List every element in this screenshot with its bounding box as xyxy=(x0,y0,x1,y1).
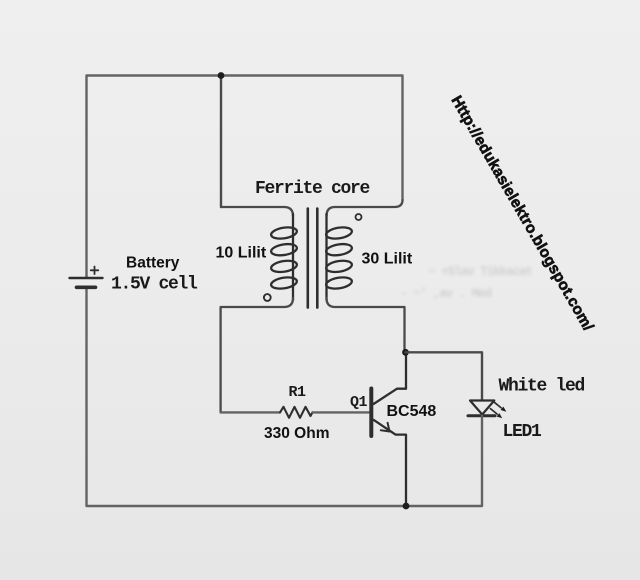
wire top bus: battery + to transformer right top xyxy=(87,76,403,278)
svg-text:- ~' ,av . Med: - ~' ,av . Med xyxy=(400,286,492,301)
node collector junction xyxy=(402,349,409,356)
wire left winding tap: junction down to winding top xyxy=(220,76,222,208)
svg-text:LED1: LED1 xyxy=(503,422,543,442)
node junction top bus xyxy=(218,72,225,79)
LED LED1 cathode bar xyxy=(468,414,495,417)
wire primary bottom lead xyxy=(221,298,293,412)
wire primary top lead xyxy=(221,207,293,216)
LED LED1 light arrow 1 xyxy=(490,402,501,414)
wire LED cathode to bottom bus xyxy=(87,289,483,507)
svg-text:~ +Slav Tikkacat: ~ +Slav Tikkacat xyxy=(428,264,533,279)
svg-text:10 Lilit: 10 Lilit xyxy=(216,245,267,262)
resistor R1 330 Ohm xyxy=(280,407,313,418)
transistor Q1 emitter arrow xyxy=(381,423,390,432)
svg-text:1.5V cell: 1.5V cell xyxy=(111,275,198,295)
svg-text:30 Lilit: 30 Lilit xyxy=(362,251,413,268)
battery plus sign xyxy=(91,267,99,275)
ghost smudge 1 xyxy=(400,264,533,301)
battery BT1 negative plate xyxy=(77,285,96,289)
ferrite core lines xyxy=(308,209,318,308)
transistor Q1 emitter lead xyxy=(374,420,407,506)
wire secondary bottom lead xyxy=(327,298,405,352)
wire collector to LED xyxy=(406,352,483,400)
LED LED1 light arrow 2 xyxy=(497,413,503,418)
transistor Q1 collector lead xyxy=(374,352,407,404)
svg-text:Ferrite core: Ferrite core xyxy=(255,179,370,199)
svg-text:330 Ohm: 330 Ohm xyxy=(264,425,329,442)
svg-text:White led: White led xyxy=(499,377,585,397)
svg-text:BC548: BC548 xyxy=(387,403,437,420)
transistor Q1 base bar xyxy=(369,389,373,437)
inductor L1 primary winding 10 Lilit xyxy=(270,214,297,300)
LED LED1 triangle xyxy=(470,401,494,415)
node emitter junction on bottom bus xyxy=(403,503,410,510)
phase dot primary xyxy=(264,294,271,301)
battery BT1 positive plate xyxy=(70,277,103,279)
wire base feed xyxy=(221,411,280,413)
wire resistor to base xyxy=(313,411,370,413)
svg-text:Battery: Battery xyxy=(126,255,180,272)
inductor L2 secondary winding 30 Lilit xyxy=(325,214,352,300)
phase dot secondary xyxy=(356,214,362,220)
wire secondary top lead xyxy=(327,200,403,216)
svg-text:Q1: Q1 xyxy=(350,394,368,411)
svg-text:R1: R1 xyxy=(289,384,307,401)
